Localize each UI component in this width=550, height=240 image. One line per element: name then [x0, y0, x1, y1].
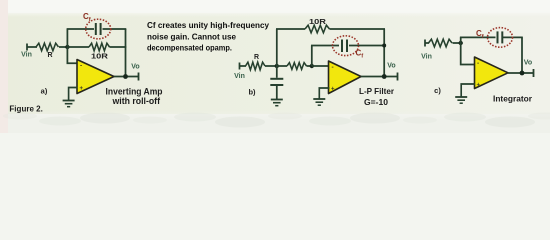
capacitor Cf plates (c): [498, 31, 503, 43]
svg-text:f: f: [482, 34, 484, 40]
output junction dot (c): [520, 71, 525, 76]
label 10R (b): [309, 19, 326, 26]
caption Integrator: [493, 94, 533, 104]
svg-text:Vo: Vo: [387, 63, 395, 70]
feedback right vertical wire (a): [125, 29, 127, 77]
wire Cf branch right segment (c): [502, 36, 523, 38]
wire R1 to node A (b): [265, 65, 277, 67]
label 10R (a): [91, 54, 108, 61]
label b): [248, 88, 256, 97]
label Cf (a): [83, 12, 91, 23]
svg-text:R: R: [47, 52, 52, 59]
label a): [41, 87, 48, 96]
svg-text:Cf creates unity high-frequenc: Cf creates unity high-frequency: [147, 21, 269, 30]
wire node A down to inverting input (a): [67, 47, 77, 63]
resistor 10R (b): [305, 25, 330, 33]
node A junction dot (c): [459, 41, 463, 45]
wire non-inverting input to ground (b): [319, 88, 329, 99]
wire node A up to Cf branch (c): [460, 37, 462, 43]
svg-text:noise gain. Cannot use: noise gain. Cannot use: [147, 33, 236, 42]
output junction dot (a): [123, 74, 128, 79]
node A junction dot (b): [275, 64, 279, 68]
wire Cf branch right segment (b): [349, 45, 385, 47]
input terminal Vin (c): [425, 40, 429, 47]
capacitor Cf plates (b): [342, 40, 347, 53]
feedback right vertical wire (c): [521, 37, 523, 73]
wire Cf branch left segment (c): [460, 36, 496, 38]
svg-text:10R: 10R: [91, 54, 108, 61]
ground symbol (a): [63, 101, 75, 107]
output wire with junction (a): [114, 76, 139, 78]
svg-text:Integrator: Integrator: [493, 94, 533, 104]
wire node B up to Cf branch (b): [311, 46, 313, 67]
resistor R1 (b): [246, 62, 266, 70]
ground symbol (b): [313, 99, 325, 105]
wire R2 to node B (b): [277, 65, 312, 67]
op-amp U3 (c): [475, 57, 509, 89]
wire node B to inverting input (b): [312, 65, 329, 67]
svg-text:Figure 2.: Figure 2.: [9, 104, 43, 114]
capacitor Cf plates (a): [96, 23, 101, 35]
wire Cf branch left segment (a): [67, 28, 94, 30]
svg-text:G=-10: G=-10: [364, 97, 388, 107]
label Vin (c): [421, 54, 432, 61]
caption Figure 2.: [9, 104, 43, 114]
background page: [0, 0, 550, 133]
svg-text:Vin: Vin: [421, 54, 432, 61]
svg-text:R: R: [254, 54, 259, 61]
wire Cf branch right segment (a): [103, 28, 127, 30]
node B junction dot (b): [310, 64, 314, 68]
output terminal tick (c): [533, 69, 535, 77]
dashed highlight ellipse around Cf (a): [86, 19, 111, 39]
resistor R1 (c): [429, 39, 453, 47]
op-amp U2 (b): [329, 61, 362, 94]
output wire (c): [508, 72, 534, 74]
wire 10R branch left segment (b): [276, 28, 305, 30]
ground symbol below C1 (b): [271, 100, 283, 106]
label Vin (a): [21, 52, 32, 59]
wire non-inverting input to ground (a): [69, 88, 78, 101]
feedback right vertical wire (b): [383, 29, 385, 77]
junction dot Cf joins right vertical (b): [382, 44, 386, 48]
label Vin (b): [234, 73, 245, 80]
node A junction dot (a): [65, 45, 69, 49]
caption L-P Filter G=-10: [359, 86, 395, 107]
label Vo (b): [387, 63, 395, 70]
wire R1 to node A (c): [453, 42, 462, 44]
svg-text:Vin: Vin: [234, 73, 245, 80]
svg-text:-: -: [332, 64, 334, 71]
svg-text:b): b): [248, 88, 256, 97]
svg-text:with roll-off: with roll-off: [112, 96, 161, 106]
svg-text:c): c): [434, 86, 441, 95]
svg-text:+: +: [331, 87, 335, 93]
label R (a): [47, 52, 52, 59]
output junction dot (b): [382, 74, 387, 79]
op-amp U1 (a): [77, 60, 114, 94]
wire Cf branch left segment (b): [311, 45, 339, 47]
svg-text:Vo: Vo: [524, 60, 532, 67]
svg-text:L-P Filter: L-P Filter: [359, 86, 395, 96]
output wire (b): [361, 76, 398, 78]
wire non-inverting input to ground (c): [461, 84, 475, 97]
shunt capacitor C1 to ground (b): [270, 66, 283, 99]
svg-text:+: +: [477, 83, 481, 89]
label R (b): [254, 54, 259, 61]
ground symbol (c): [455, 97, 467, 103]
label Vo (a): [131, 64, 139, 71]
wire node A up to Cf branch (a): [66, 29, 68, 47]
input terminal Vin (a): [27, 44, 37, 51]
dashed highlight ellipse around Cf (b): [333, 36, 359, 56]
label Cf (b): [356, 49, 364, 60]
svg-text:decompensated opamp.: decompensated opamp.: [147, 44, 232, 53]
svg-text:a): a): [41, 87, 48, 96]
svg-text:f: f: [89, 17, 91, 23]
input terminal Vin (b): [240, 63, 247, 70]
wire node A to resistor 10R (a): [67, 46, 89, 48]
output terminal tick (b): [397, 73, 399, 81]
wire node A up to 10R branch (b): [276, 29, 278, 66]
resistor R2 (b): [287, 63, 307, 70]
svg-text:f: f: [361, 54, 363, 60]
resistor R1 (a): [36, 43, 59, 51]
note text block: [147, 21, 269, 53]
wire 10R to right vertical (b): [330, 28, 386, 30]
dashed highlight ellipse around Cf (c): [488, 28, 513, 48]
caption Inverting Amp with roll-off: [106, 87, 163, 107]
wire node A down to inverting input (c): [461, 43, 475, 65]
svg-text:10R: 10R: [309, 19, 326, 26]
svg-text:-: -: [80, 63, 82, 70]
label Vo (c): [524, 60, 532, 67]
svg-text:Vin: Vin: [21, 52, 32, 59]
label c): [434, 86, 441, 95]
svg-text:-: -: [477, 60, 479, 67]
wire 10R to right vertical (a): [110, 46, 127, 48]
svg-text:Inverting Amp: Inverting Amp: [106, 87, 163, 97]
wire R1 to node A (a): [59, 46, 67, 48]
svg-text:Vo: Vo: [131, 64, 139, 71]
resistor 10R (a): [89, 43, 110, 51]
svg-text:+: +: [80, 86, 84, 92]
output terminal tick (a): [138, 73, 140, 81]
label Cf (c): [476, 29, 484, 40]
